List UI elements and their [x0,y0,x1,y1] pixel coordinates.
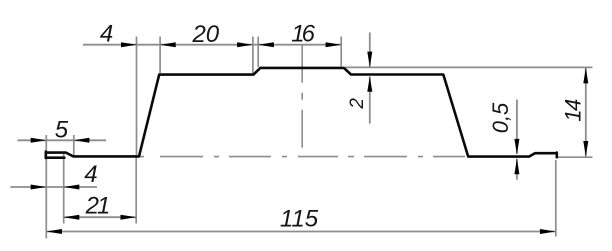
arrow 2 top (tip 67.2 pointing down) [367,52,372,68]
dimension line 5 y=140.3 [17,139,106,141]
extension line right-lip level y=157.2 [558,156,593,158]
svg-text:21: 21 [85,193,109,220]
arrowheads [31,42,589,234]
extension line lip-slope-right x=73.8 [73,135,75,157]
svg-text:4: 4 [84,161,97,188]
extension line lip-fold x=63.7 [63,154,65,224]
arrow 16 left (tip 258.3 pointing left) [258,42,274,47]
main profile path [46,68,557,157]
arrow 5 left (outside, tip 46.3 pointing right) [31,138,47,143]
arrow 115 left (tip 46.3 pointing left) [46,229,62,234]
svg-text:2: 2 [347,98,368,110]
arrow 0,5 top (tip 154.5 pointing down) [514,139,519,155]
extension line lip-left x=46.3 [45,135,47,238]
right lip end vertical [555,153,558,158]
arrow 115 right (tip 555.6 pointing right) [540,229,556,234]
dimension line 0,5 x=516.9 [516,100,518,154]
arrow 4-top left (outside, pointing right) tip 136.6 [121,42,137,47]
arrow 21 right (tip 136.1 pointing right) [121,215,137,220]
profile outline (sheet cross-section) [46,68,557,158]
dimension line 21 y=217.2 [64,216,136,218]
arrow 4-bottom left (outside, tip 46.3 pointing right) [31,185,47,190]
arrow 16 right (tip 341.2 pointing right) [326,42,342,47]
svg-text:5: 5 [55,116,69,143]
arrow 14 top (tip 67.8 pointing up) [583,68,588,84]
svg-text:4: 4 [100,20,113,47]
arrow 0,5 bottom (tip 158.6 pointing up) [514,159,519,175]
arrow 4-bottom right (outside, tip 63.7 pointing left) [64,185,80,190]
svg-text:14: 14 [561,99,586,122]
dimension line 4 bottom y=187 [10,186,97,188]
arrow 20 left (tip 160.1 pointing left) [160,42,176,47]
arrow 5 right (outside, tip 73.8 pointing left) [74,138,90,143]
extension line profile-right-end x=555.8 [555,160,557,237]
extension line hump-right x=341.2 [340,37,342,67]
centerline horizontal y=156.6 [136,156,465,158]
arrow 20 right (tip 252.7 pointing right) [237,42,253,47]
svg-text:20: 20 [191,21,219,48]
arrow 2 bottom (tip 76.2 pointing up) [367,76,372,92]
centerline vertical x=302.2 [301,45,303,150]
svg-text:115: 115 [280,206,319,233]
dimension line 2 x=369.8 [369,32,371,67]
left lip hem: end vertical + bottom leg [44,152,47,158]
extension line hump-top level y=67.4 [345,66,593,68]
svg-text:0,5: 0,5 [488,102,513,133]
extension line flange-left x=160 [159,37,161,74]
arrow 14 bottom (tip 156.6 pointing down) [583,141,588,157]
extension line slope-bottom x=136 [46,37,592,239]
dimension line 115 y=231.5 [46,231,555,233]
dimension line top (4 / 20 / 16) y=44.7 [10,32,585,231]
arrow 21 left (tip 63.7 pointing left) [64,215,80,220]
dimension line 14 x=585.8 [585,68,587,157]
extension line step-left-top x=258.2 [257,37,259,68]
extension line step-left-bottom x=252.9 [252,37,254,74]
svg-text:16: 16 [291,20,315,47]
